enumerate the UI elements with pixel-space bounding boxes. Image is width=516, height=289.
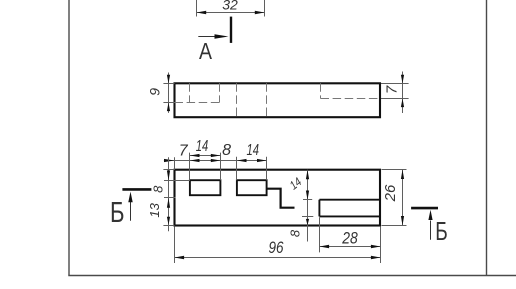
hidden cutout bottom (dashed horizontal right) <box>321 98 380 100</box>
svg-text:7: 7 <box>383 85 400 94</box>
hidden slot 1 left edge (dashed) <box>189 83 191 102</box>
section step line <box>267 189 295 208</box>
chain extension window2 left <box>236 157 238 180</box>
section B left arrow <box>130 202 132 221</box>
drawing frame bottom border <box>68 275 516 277</box>
dim 7 arrow bottom <box>401 99 404 108</box>
svg-text:13: 13 <box>147 202 162 217</box>
chain dim line (7-14-8-14) <box>164 160 267 162</box>
dim 7 tick top <box>381 83 409 85</box>
left dim line (8/13) <box>168 157 170 231</box>
dim 96 dimension line <box>175 257 381 259</box>
dim 96 arrow left <box>175 256 185 259</box>
dim 96 arrow right <box>371 256 381 259</box>
dim 96 extension left <box>174 227 176 263</box>
dim 14-1 raised dimension line <box>190 155 221 157</box>
dim 28 dimension line <box>320 246 381 248</box>
dim 14 vertical arrow down <box>306 191 309 201</box>
svg-text:28: 28 <box>341 229 358 248</box>
svg-text:8: 8 <box>288 229 303 237</box>
dim 8 chain arrow right (outside) <box>237 159 247 162</box>
dim 7 tick bottom <box>381 98 409 100</box>
dim 28 arrow left <box>320 245 330 248</box>
left dim top edge extension <box>163 169 174 171</box>
window 1 <box>190 180 221 195</box>
chain extension line part left edge <box>174 157 176 170</box>
dim 26 arrow up <box>401 170 404 180</box>
dim 8 chain arrow left (outside) <box>211 159 221 162</box>
dim 26 arrow down <box>401 216 404 226</box>
dim 28 extension left <box>319 218 321 253</box>
dim 9 tick top <box>163 83 174 85</box>
dim 28/96 extension right <box>380 227 382 263</box>
chain extension window1 left <box>189 153 191 181</box>
inner notch left edge <box>318 200 320 217</box>
inner notch bottom line <box>319 215 379 217</box>
window 2 <box>237 180 267 195</box>
front view outline <box>175 170 381 226</box>
dim 26 dimension line <box>402 170 404 226</box>
section B left cut line <box>122 188 151 191</box>
drawing frame left border <box>68 0 70 276</box>
dim 7 arrow top <box>401 75 404 84</box>
svg-text:32: 32 <box>222 0 238 12</box>
svg-text:8: 8 <box>222 142 231 159</box>
dim 32 arrow right <box>255 11 265 14</box>
top view outline <box>175 83 381 117</box>
section A arrow <box>198 36 216 38</box>
dim 14-2 arrow right <box>257 159 267 162</box>
dim 9 tick bottom <box>163 102 174 104</box>
svg-text:26: 26 <box>382 184 399 202</box>
dim 32 extension line left <box>196 0 198 17</box>
hidden slot 2 right edge (dashed full height) <box>266 83 268 117</box>
svg-text:14: 14 <box>196 138 209 155</box>
svg-text:9: 9 <box>146 88 162 96</box>
dim 32 arrow left <box>197 11 207 14</box>
dim 32 extension line right <box>264 0 266 17</box>
dim 9 arrow top <box>167 75 170 84</box>
hidden cutout left edge (dashed) <box>320 83 322 98</box>
dim 28 arrow right <box>371 245 381 248</box>
svg-text:8: 8 <box>151 185 166 193</box>
section B right cut line <box>411 207 438 210</box>
dim 8 right tick <box>302 216 313 218</box>
svg-text:Б: Б <box>110 197 125 229</box>
svg-text:А: А <box>199 38 213 64</box>
section B right arrow <box>430 221 432 240</box>
section A cut line <box>230 17 232 43</box>
dim 14 vertical tick <box>303 199 312 201</box>
dim 14-1 arrow left <box>190 154 200 157</box>
hidden slot 2 left edge (dashed full height) <box>236 83 238 117</box>
dim 7 chain arrow left (outside) <box>164 159 174 162</box>
dim 13 arrow up <box>167 198 170 208</box>
svg-text:Б: Б <box>435 216 448 246</box>
hidden slot bottom (dashed horizontal left) <box>175 102 221 104</box>
dim 8 right arrow <box>306 219 309 225</box>
inner notch top line <box>319 199 379 201</box>
left dim middle tick <box>164 197 176 199</box>
dim 13 arrow down <box>167 217 170 225</box>
drawing frame right border <box>486 0 488 276</box>
dim 7 chain arrow right (outside) <box>190 159 200 162</box>
dim 9 arrow bottom <box>167 103 170 112</box>
svg-text:7: 7 <box>179 143 189 160</box>
dim 26 extension bottom <box>382 225 407 227</box>
dim 7 dimension line <box>402 72 404 114</box>
chain extension window1 right <box>220 153 222 181</box>
svg-text:96: 96 <box>269 238 284 257</box>
hidden slot 1 right edge (dashed) <box>219 83 221 102</box>
dim 14-1 arrow right <box>211 154 221 157</box>
chain extension window2 right <box>266 157 268 180</box>
dim 26 extension top <box>382 169 407 171</box>
dim 9 dimension line <box>168 73 170 113</box>
dim 8 left arrow (down to window top ext) <box>167 170 170 180</box>
window top extension to left <box>164 180 190 182</box>
dim 14 vertical arrow up <box>306 170 309 180</box>
svg-text:14: 14 <box>247 142 260 159</box>
left dim bottom edge extension <box>163 225 174 227</box>
dim 14 vertical line <box>307 170 309 242</box>
dim 32 dimension line <box>197 12 265 14</box>
